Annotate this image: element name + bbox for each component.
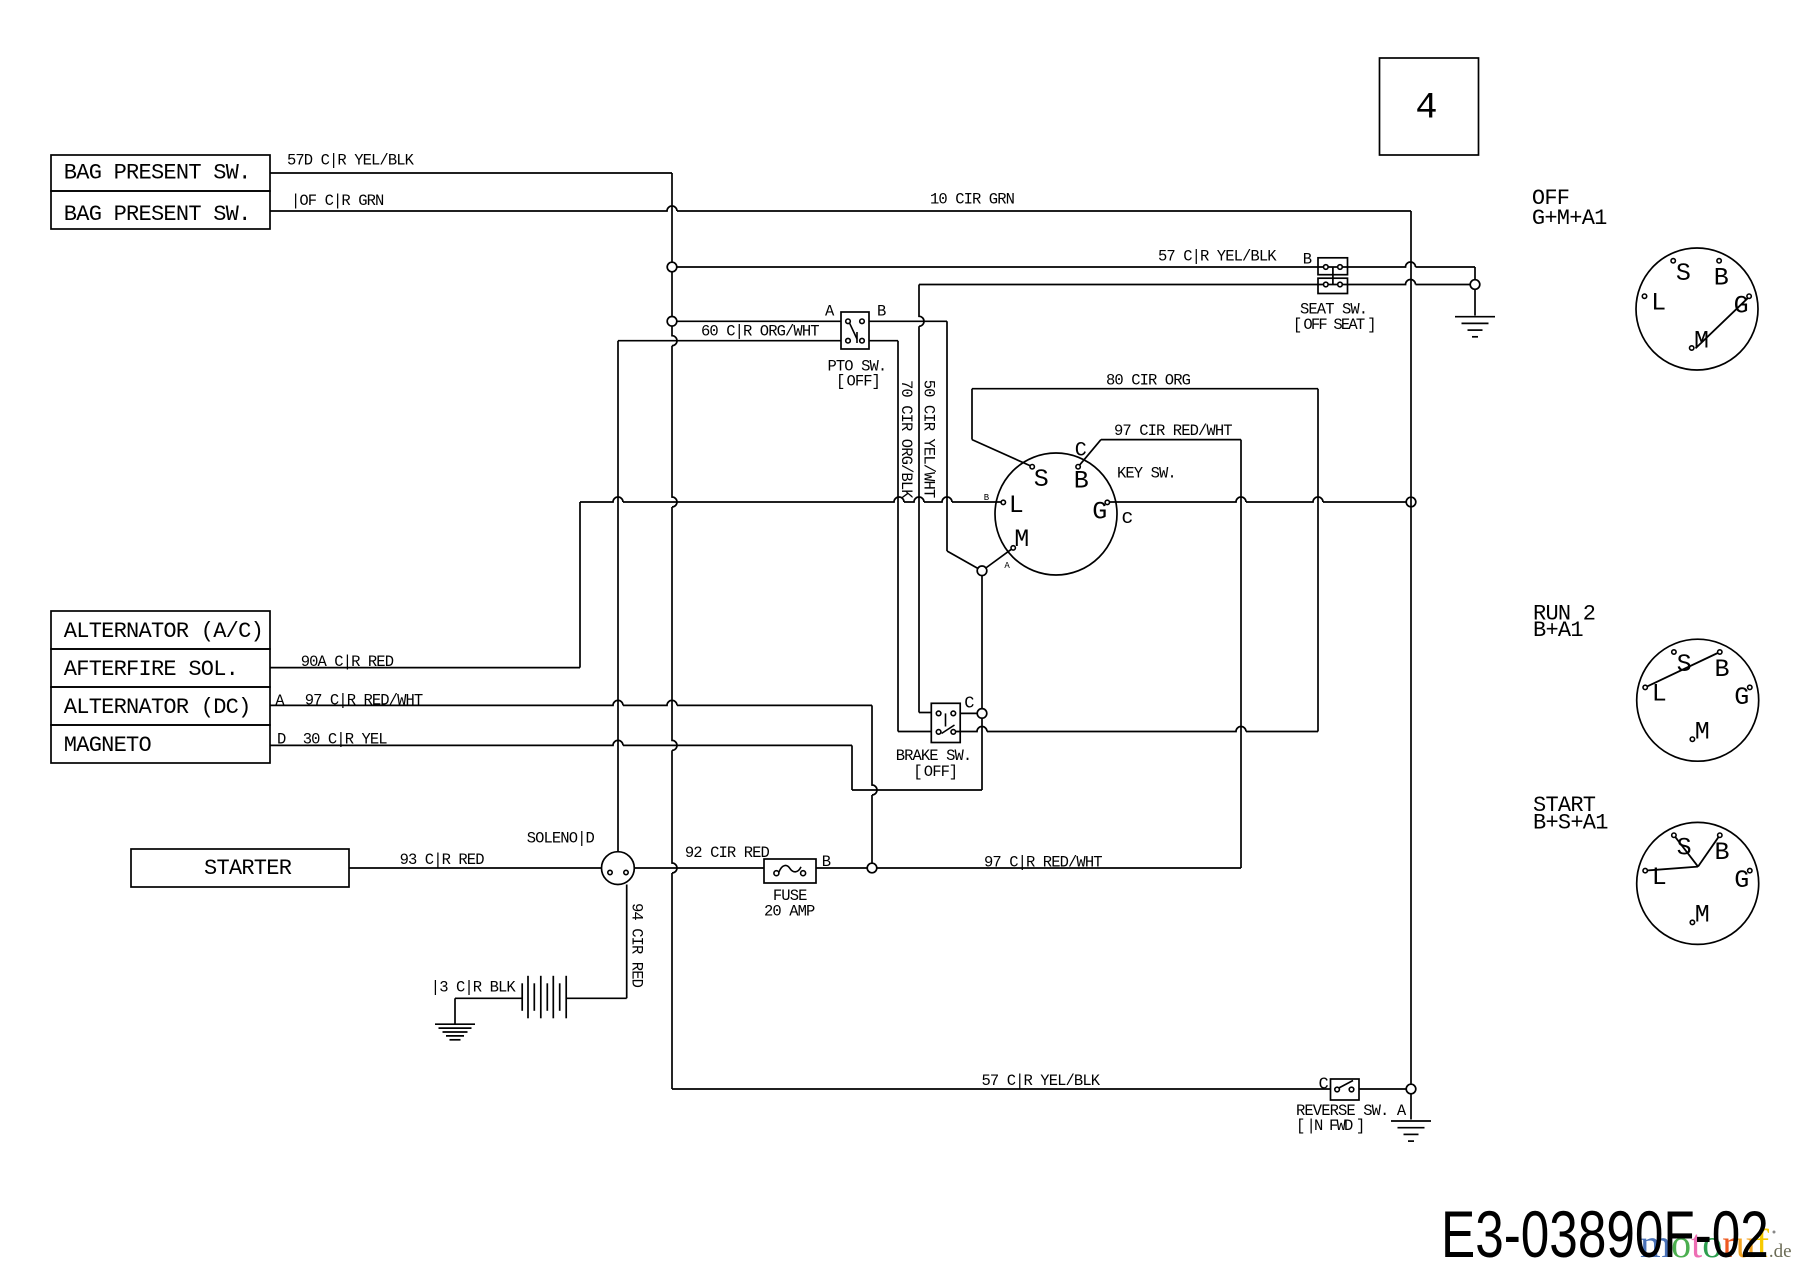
- wire 70 column stub to brake: [898, 731, 931, 733]
- svg-text:KEY SW.: KEY SW.: [1117, 464, 1176, 482]
- wire fuse row node to key column: [877, 867, 1241, 869]
- wire PTO sw B to 50 column corner: [869, 320, 947, 322]
- node junction reverse sw ground: [1406, 1084, 1416, 1094]
- switch BRAKE SW.: [931, 703, 960, 742]
- svg-text:97 CIR RED/WHT: 97 CIR RED/WHT: [1114, 422, 1232, 440]
- svg-text:S: S: [1677, 650, 1692, 679]
- svg-text:93 C|R RED: 93 C|R RED: [400, 851, 485, 869]
- svg-text:30 C|R YEL: 30 C|R YEL: [303, 730, 388, 748]
- svg-text:G+M+A1: G+M+A1: [1532, 206, 1607, 231]
- wire ground drop (seat sw): [1474, 289, 1476, 315]
- svg-text:L: L: [1652, 863, 1667, 892]
- wire 93 C|R RED (starter to solenoid): [349, 867, 602, 869]
- wire solenoid column to PTO sw (60 return): [617, 341, 619, 852]
- wire 94 CIR RED (solenoid to battery): [626, 885, 628, 999]
- ground (battery): [435, 1023, 475, 1025]
- svg-text:.de: .de: [1769, 1241, 1792, 1262]
- svg-text:B: B: [1714, 264, 1729, 293]
- switch PTO SW.: [841, 312, 869, 349]
- svg-text:G: G: [1092, 498, 1107, 527]
- svg-text:[: [: [1296, 1117, 1304, 1135]
- component box AFTERFIRE SOL.: [51, 649, 270, 687]
- component box BAG PRESENT SW. (lower): [51, 191, 270, 229]
- wire ground drop (reverse sw): [1410, 1094, 1412, 1120]
- sheet number box 4: [1380, 58, 1479, 155]
- wire seat sw lower right to ground node: [1348, 280, 1471, 285]
- svg-text:L: L: [1652, 680, 1667, 709]
- svg-text:B: B: [984, 493, 990, 503]
- svg-text:97 C|R RED/WHT: 97 C|R RED/WHT: [305, 691, 423, 709]
- key position diagram OFF (circle): [1636, 248, 1758, 370]
- wire fuse to 97 node: [816, 867, 867, 869]
- wire L row (lights feed): [580, 497, 1001, 502]
- wire S diagonal: [972, 440, 1031, 466]
- svg-text:57 C|R YEL/BLK: 57 C|R YEL/BLK: [1158, 247, 1277, 265]
- svg-text:|OF C|R GRN: |OF C|R GRN: [291, 192, 384, 210]
- wire node column at x=672 (net 57): [672, 173, 677, 1089]
- svg-text:B: B: [822, 853, 831, 871]
- switch REVERSE SW.: [1331, 1079, 1360, 1100]
- svg-text:M: M: [1014, 525, 1029, 554]
- wire 30 C|R YEL (magneto to key M): [270, 740, 852, 745]
- node ground junction at seat sw: [1470, 280, 1480, 290]
- wire 92 CIR RED (solenoid to fuse): [634, 867, 764, 869]
- wire |OF C|R GRN / 10 CIR GRN (bag sw 2 to key column): [270, 206, 1411, 211]
- wire 90A C|R RED (afterfire sol to L row): [270, 667, 580, 669]
- node junction G row at x=1411: [1406, 497, 1416, 507]
- wire brake sw right stub to node: [960, 712, 977, 714]
- svg-text:ALTERNATOR (A/C): ALTERNATOR (A/C): [64, 619, 263, 644]
- wire 57 C|R YEL/BLK (reverse sw row): [672, 1088, 1331, 1090]
- wire 57 C|R YEL/BLK (node to seat sw): [677, 266, 1318, 268]
- svg-text:B: B: [1303, 251, 1312, 269]
- svg-text:M: M: [1695, 901, 1710, 930]
- svg-text:OFF: OFF: [924, 763, 950, 781]
- svg-text:70 CIR ORG/BLK: 70 CIR ORG/BLK: [897, 380, 915, 499]
- key position diagram START (circle): [1637, 822, 1759, 944]
- wire PTO sw lower right to 70 column: [869, 340, 898, 342]
- svg-text:57 C|R YEL/BLK: 57 C|R YEL/BLK: [982, 1072, 1101, 1090]
- wire 57D C|R YEL/BLK (bag sw 1 to node): [270, 172, 672, 174]
- key switch KEY SW. (circle): [995, 453, 1117, 575]
- fuse FUSE 20 AMP: [764, 859, 816, 883]
- svg-text:B: B: [1074, 466, 1089, 495]
- svg-text:B: B: [1715, 655, 1730, 684]
- svg-text:B+S+A1: B+S+A1: [1533, 810, 1608, 835]
- svg-text:B: B: [877, 302, 886, 320]
- svg-text:AFTERFIRE SOL.: AFTERFIRE SOL.: [64, 657, 238, 682]
- svg-text:92 CIR RED: 92 CIR RED: [685, 844, 770, 862]
- svg-text:S: S: [1034, 465, 1049, 494]
- component box STARTER: [131, 849, 349, 887]
- node junction brake C: [977, 709, 987, 719]
- svg-text:[: [: [1293, 316, 1301, 334]
- switch SEAT SW.: [1318, 258, 1348, 275]
- svg-text:]: ]: [872, 372, 880, 390]
- wire reverse sw to ground node: [1359, 1088, 1406, 1090]
- wire brake sw left stub: [919, 712, 931, 714]
- svg-text:C: C: [1319, 1076, 1329, 1095]
- ground (seat sw): [1455, 316, 1495, 318]
- wire key M to node A: [986, 549, 1012, 568]
- wire |3 C|R BLK (battery to ground): [455, 997, 522, 999]
- svg-text:A: A: [1004, 561, 1010, 571]
- component box BAG PRESENT SW. (upper): [51, 155, 270, 191]
- svg-text:G: G: [1734, 683, 1749, 712]
- battery: [521, 983, 523, 1011]
- svg-text:]: ]: [1356, 1117, 1364, 1135]
- wire key column at x=1411 (net 10): [1410, 211, 1412, 1084]
- solenoid (coil circle): [602, 852, 635, 885]
- svg-text:L: L: [1651, 288, 1666, 317]
- svg-text:M: M: [1695, 718, 1710, 747]
- svg-text:C: C: [1075, 439, 1087, 462]
- svg-text:E3-03890F-02: E3-03890F-02: [1441, 1197, 1769, 1272]
- svg-text:]: ]: [1367, 316, 1375, 334]
- wire 97 CIR RED/WHT (key B to fuse row): [1101, 439, 1241, 441]
- wire M drop column: [981, 576, 983, 709]
- key position diagram RUN 2 (circle): [1637, 639, 1759, 761]
- svg-text:80 CIR ORG: 80 CIR ORG: [1106, 371, 1191, 389]
- svg-text:S: S: [1677, 833, 1692, 862]
- wire 50 CIR YEL/WHT column: [919, 285, 924, 713]
- svg-text:OFF: OFF: [847, 372, 873, 390]
- svg-text:10 CIR GRN: 10 CIR GRN: [930, 190, 1015, 208]
- svg-text:M: M: [1694, 326, 1709, 355]
- svg-text:57D C|R YEL/BLK: 57D C|R YEL/BLK: [287, 151, 415, 169]
- svg-text:G: G: [1734, 292, 1749, 321]
- wire G row (key G to ground column): [1110, 497, 1407, 502]
- svg-text:94 CIR RED: 94 CIR RED: [628, 903, 646, 988]
- node junction A (key M): [977, 566, 987, 576]
- wire 97 C|R RED/WHT (alternator DC to fuse node): [270, 700, 872, 705]
- component box ALTERNATOR (DC): [51, 687, 270, 725]
- svg-text:c: c: [1121, 507, 1133, 530]
- svg-text:[: [: [836, 372, 844, 390]
- svg-text:4: 4: [1415, 87, 1437, 129]
- svg-text:20 AMP: 20 AMP: [764, 902, 815, 920]
- ground (reverse sw): [1391, 1120, 1431, 1122]
- svg-text:SOLENO|D: SOLENO|D: [527, 829, 595, 847]
- wire seat sw return to x=919 column: [919, 284, 1318, 286]
- component box MAGNETO: [51, 725, 270, 763]
- svg-text:B: B: [1715, 838, 1730, 867]
- wire 80 CIR ORG (S feed to brake sw): [971, 389, 973, 440]
- wire B diagonal: [1080, 440, 1101, 466]
- svg-text:90A C|R RED: 90A C|R RED: [301, 653, 394, 671]
- svg-text:50 CIR YEL/WHT: 50 CIR YEL/WHT: [920, 380, 938, 498]
- svg-text:G: G: [1734, 866, 1749, 895]
- svg-text:MAGNETO: MAGNETO: [64, 733, 152, 758]
- svg-text:ALTERNATOR (DC): ALTERNATOR (DC): [64, 695, 251, 720]
- svg-text:D: D: [277, 730, 286, 748]
- svg-text:OFF SEAT: OFF SEAT: [1303, 316, 1365, 334]
- svg-text:|N FWD: |N FWD: [1307, 1117, 1354, 1135]
- svg-text:|3 C|R BLK: |3 C|R BLK: [431, 978, 517, 996]
- svg-text:]: ]: [949, 763, 957, 781]
- svg-text:L: L: [1009, 491, 1024, 520]
- svg-text:C: C: [964, 694, 974, 713]
- svg-text:BAG PRESENT SW.: BAG PRESENT SW.: [64, 161, 251, 186]
- node junction 60 row at x=672: [667, 317, 677, 327]
- svg-text:BAG PRESENT SW.: BAG PRESENT SW.: [64, 202, 251, 227]
- svg-text:B+A1: B+A1: [1533, 618, 1583, 643]
- svg-text:S: S: [1676, 259, 1691, 288]
- svg-text:60 C|R ORG/WHT: 60 C|R ORG/WHT: [701, 322, 819, 340]
- node junction 57 row at x=672: [667, 262, 677, 272]
- wire 60 C|R ORG/WHT (node to PTO sw A): [677, 320, 841, 322]
- wire seat sw B to ground corner: [1348, 262, 1476, 267]
- svg-text:[: [: [913, 763, 921, 781]
- svg-text:97 C|R RED/WHT: 97 C|R RED/WHT: [984, 853, 1102, 871]
- node junction fuse row: [867, 863, 877, 873]
- svg-text:STARTER: STARTER: [204, 856, 292, 881]
- component box ALTERNATOR (A/C): [51, 611, 270, 649]
